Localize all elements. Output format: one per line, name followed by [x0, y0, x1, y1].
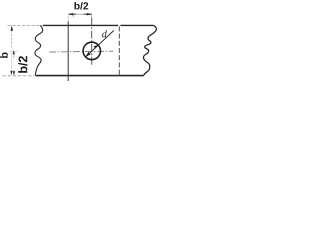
bar bottom edge [36, 75, 144, 77]
left dimension line b [11, 26, 13, 48]
left break line [35, 26, 43, 76]
right break line [143, 25, 156, 75]
vertical reference line at b/2 left of hole [67, 22, 69, 82]
top dimension arrow right [87, 13, 92, 15]
dashed vertical line right of hole [118, 26, 120, 74]
left dimension line b/2 [13, 51, 15, 58]
label b left [0, 53, 8, 58]
b arrow up [11, 26, 14, 31]
diameter arrowhead upper-right [94, 45, 99, 49]
b arrow down [10, 71, 12, 76]
extension tail below dimension line [73, 15, 75, 18]
hole circle [83, 42, 100, 59]
label b/2 left [18, 56, 27, 73]
bar bottom edge extension (light, left) [3, 75, 35, 77]
b/2 arrow down [13, 71, 15, 75]
top dimension arrow left [68, 13, 73, 15]
centerline extension tick left [10, 50, 18, 52]
diameter line d [85, 31, 114, 58]
hole vertical centerline [91, 13, 93, 18]
hole horizontal centerline [49, 50, 113, 53]
bar top edge extension (light, left) [8, 24, 44, 26]
top dimension line b/2 [68, 13, 76, 15]
diameter arrowhead lower-left [85, 52, 91, 57]
b/2 arrow up [13, 50, 15, 54]
bar top edge [43, 24, 154, 26]
label b/2 top [75, 2, 89, 10]
label d [102, 30, 107, 37]
